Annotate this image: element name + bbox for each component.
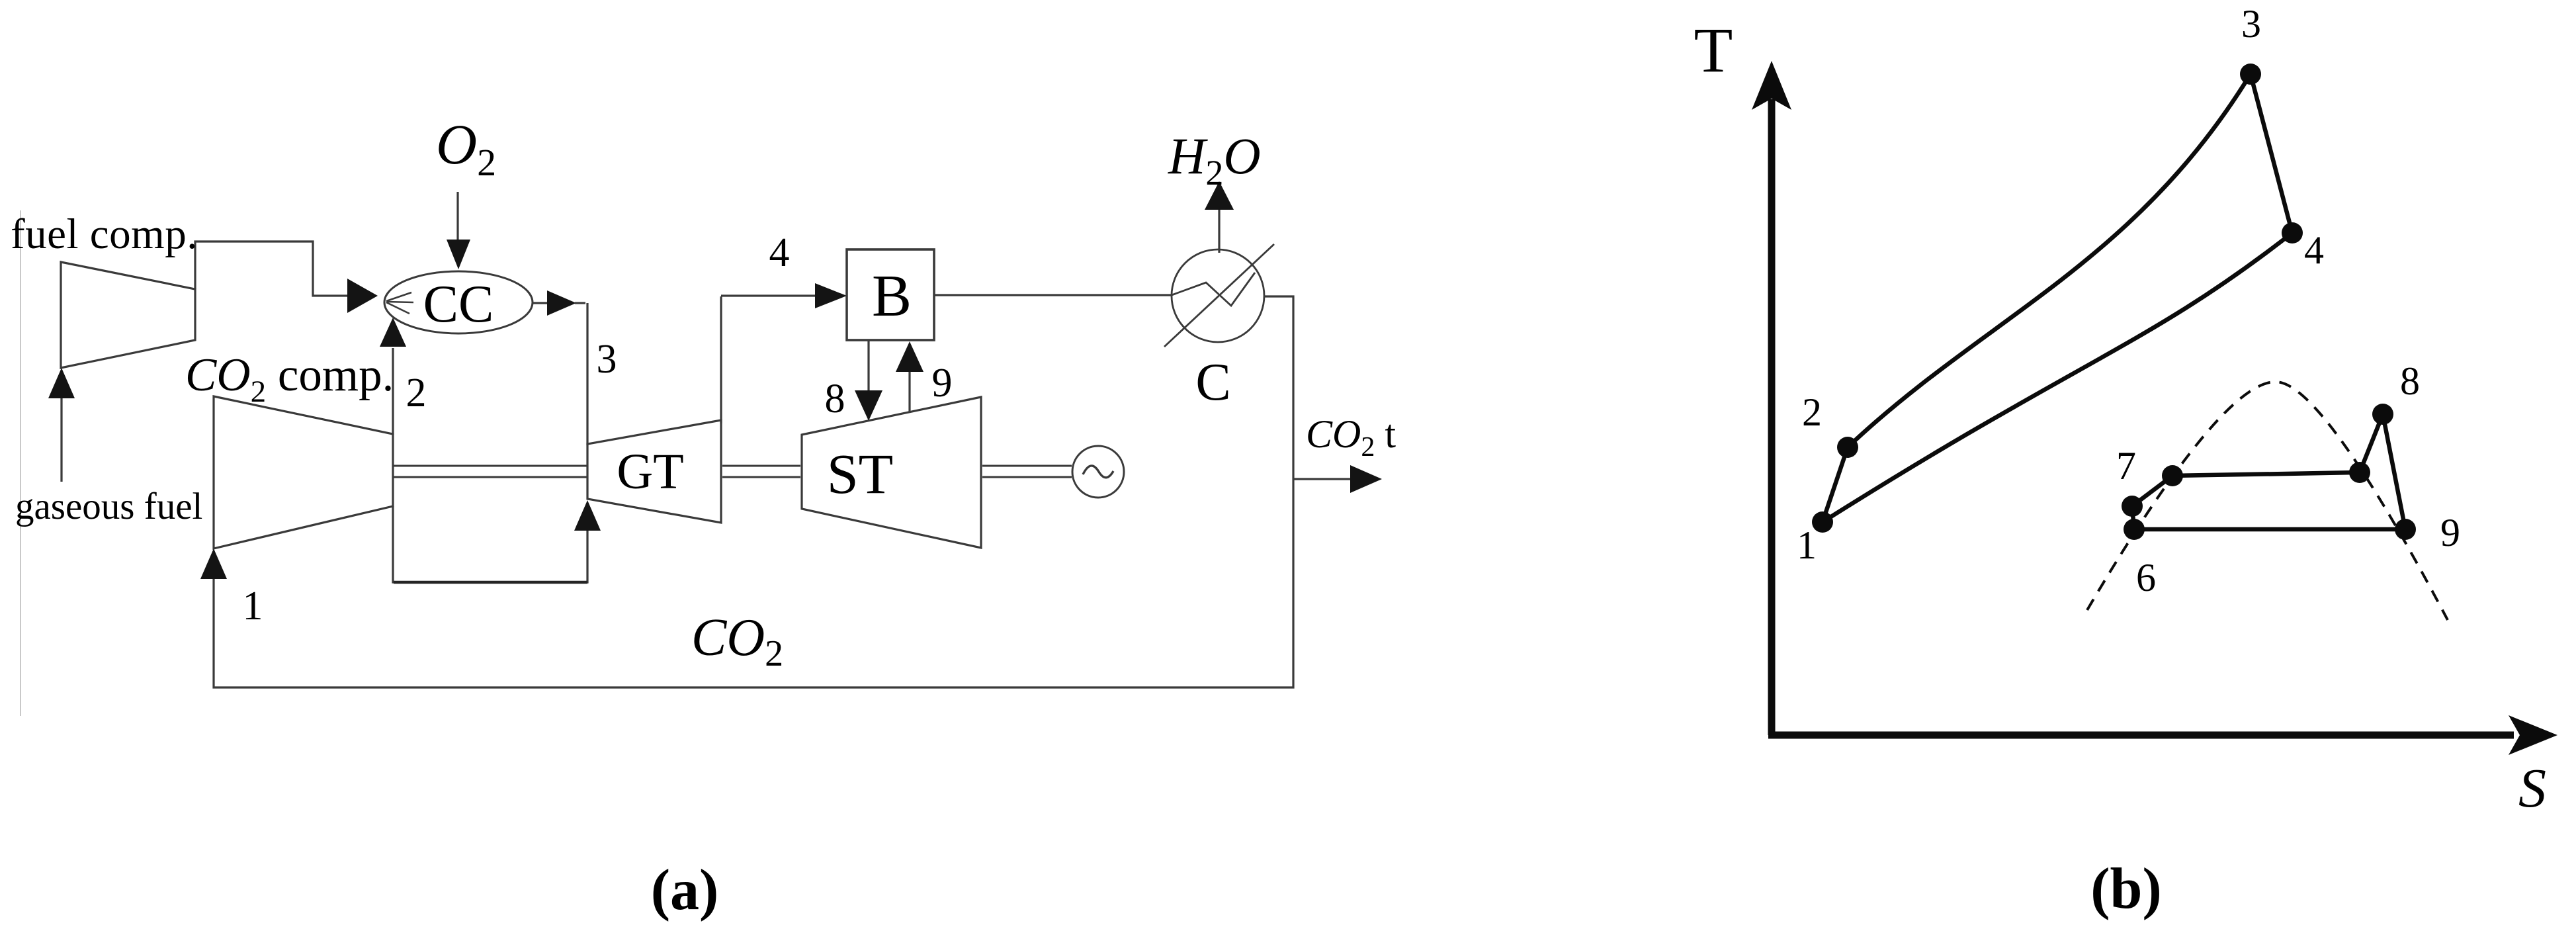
svg-text:O2: O2 [436, 112, 496, 184]
svg-text:2: 2 [406, 371, 427, 416]
svg-text:6: 6 [2136, 556, 2156, 599]
svg-text:7: 7 [2116, 444, 2136, 488]
svg-text:1: 1 [243, 584, 263, 629]
svg-text:T: T [1694, 15, 1733, 85]
svg-text:8: 8 [2400, 359, 2420, 403]
svg-text:C: C [1195, 353, 1230, 412]
svg-text:B: B [872, 263, 912, 329]
svg-text:2: 2 [1802, 390, 1822, 434]
svg-text:9: 9 [2440, 511, 2460, 554]
svg-text:H2O: H2O [1168, 127, 1261, 193]
svg-text:(a): (a) [651, 858, 719, 922]
svg-text:gaseous fuel: gaseous fuel [15, 486, 202, 527]
svg-text:fuel comp.: fuel comp. [11, 210, 198, 258]
svg-text:CC: CC [423, 275, 494, 333]
svg-text:4: 4 [2304, 228, 2324, 272]
svg-text:S: S [2518, 758, 2546, 819]
svg-text:9: 9 [932, 361, 953, 406]
svg-text:CO2: CO2 [691, 609, 783, 674]
svg-text:ST: ST [827, 442, 893, 506]
svg-text:3: 3 [597, 337, 617, 382]
svg-text:CO2 comp.: CO2 comp. [185, 349, 394, 409]
svg-text:3: 3 [2241, 2, 2261, 46]
svg-text:4: 4 [769, 230, 790, 275]
svg-text:1: 1 [1797, 523, 1817, 567]
svg-text:(b): (b) [2090, 857, 2162, 921]
svg-text:GT: GT [617, 444, 683, 500]
svg-text:8: 8 [825, 376, 845, 421]
svg-text:CO2 t: CO2 t [1306, 412, 1396, 462]
